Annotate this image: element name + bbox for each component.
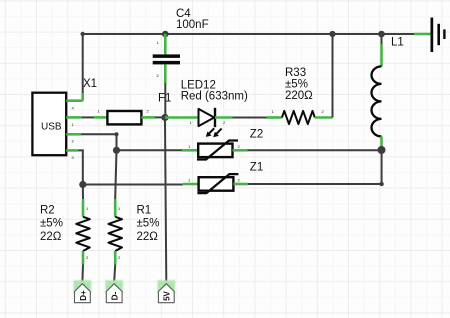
svg-text:D+: D+ — [79, 290, 88, 301]
connector X1 USB — [32, 78, 97, 160]
wire X1 pin2 to Z2 row — [81, 134, 117, 150]
varistor Z1 — [183, 161, 264, 193]
svg-text:Z2: Z2 — [250, 128, 263, 140]
resistor R2 — [40, 199, 90, 265]
terminal 5V — [158, 280, 176, 303]
svg-text:D-: D- — [111, 291, 120, 300]
junction 5V node — [161, 114, 168, 121]
wire R2 to D+ terminal — [81, 265, 84, 282]
svg-text:22Ω: 22Ω — [137, 231, 159, 243]
pin 3 (D+) — [66, 149, 78, 152]
ground — [382, 18, 446, 53]
wire Z1 node down to R2 — [82, 185, 84, 200]
wire Z2 node to Z2 — [117, 149, 183, 151]
svg-text:R1: R1 — [137, 204, 152, 216]
svg-text:5V: 5V — [163, 290, 172, 300]
junction Z2 node — [113, 147, 120, 154]
svg-text:R2: R2 — [40, 204, 55, 216]
junction rail at R33 riser — [329, 31, 335, 37]
svg-text:±5%: ±5% — [40, 218, 63, 230]
wire C4 bottom to 5V node — [164, 83, 166, 118]
resistor R1 — [108, 199, 159, 265]
wire 5V node down to 5V terminal — [165, 121, 166, 282]
wire F1 to 5V node — [155, 116, 165, 118]
svg-text:F1: F1 — [158, 93, 171, 105]
wire R33 riser to rail — [332, 34, 334, 118]
inductor L1 — [372, 34, 404, 147]
wire X1 pin1 to F1 — [81, 116, 94, 118]
svg-text:±5%: ±5% — [285, 79, 308, 91]
wire R1 to D- terminal — [114, 265, 115, 282]
junction L1 bottom node — [378, 146, 386, 154]
resistor R33 — [267, 67, 333, 124]
svg-text:Z1: Z1 — [250, 161, 263, 173]
wire Z2 to L1 bottom node — [248, 149, 382, 151]
wire 5V node to LED — [165, 116, 199, 119]
svg-text:USB: USB — [41, 122, 62, 133]
terminal D+ — [74, 280, 92, 303]
junction rail at C4 — [162, 31, 169, 38]
svg-text:R33: R33 — [285, 67, 306, 79]
junction Z1 node — [79, 181, 86, 188]
varistor Z2 — [182, 128, 263, 159]
wire riser from rail down to X1 pin 4 — [82, 34, 84, 93]
wire LED to R33 — [232, 117, 266, 119]
junction pin2 corner — [115, 132, 119, 136]
svg-text:Red (633nm): Red (633nm) — [181, 90, 248, 102]
LED LED12 — [181, 79, 248, 137]
svg-text:100nF: 100nF — [176, 19, 209, 31]
svg-text:220Ω: 220Ω — [285, 90, 313, 102]
pin 4 (GND, top) — [66, 99, 83, 102]
capacitor C4 — [153, 8, 209, 83]
svg-text:L1: L1 — [391, 37, 404, 49]
pin 1 (VBUS) — [66, 116, 81, 119]
junction rail left corner — [81, 32, 85, 36]
svg-text:X1: X1 — [83, 78, 97, 90]
svg-text:22Ω: 22Ω — [40, 231, 62, 243]
wire Z1 node to Z1 — [83, 184, 183, 186]
junction Z1 right corner — [379, 182, 383, 186]
pin 2 (D-) — [66, 133, 81, 136]
junction rail at L1 — [378, 31, 385, 38]
wire Z1 to L1 bottom node — [248, 150, 382, 184]
svg-text:±5%: ±5% — [137, 218, 160, 230]
wire top ground rail — [83, 33, 382, 35]
terminal D- — [105, 280, 123, 303]
wire X1 pin3 to Z1 row — [79, 150, 83, 184]
wire Z2 node down to R1 — [115, 150, 116, 199]
fuse F1 — [94, 93, 171, 125]
